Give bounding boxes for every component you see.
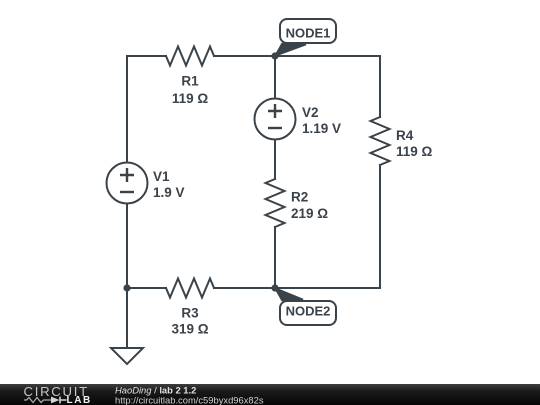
wire left vertical lower (127,204)-(127,288)	[126, 204, 128, 288]
resistor R4 zigzag	[371, 117, 390, 165]
voltage source V1 circle	[107, 163, 148, 204]
wire right vertical upper (380,56)-(380,117)	[379, 56, 381, 117]
NODE1 flag tail	[275, 44, 306, 57]
svg-text:V2: V2	[302, 105, 319, 120]
svg-text:V1: V1	[153, 169, 170, 184]
resistor R2 zigzag	[266, 179, 285, 227]
junction dot node2 bottom	[271, 284, 278, 291]
svg-text:119 Ω: 119 Ω	[172, 91, 209, 106]
wire right vertical lower (380,165)-(380,288)	[379, 165, 381, 288]
wire top-right (214,56)-(380,56)	[214, 55, 380, 57]
junction dot bottom-left	[123, 284, 130, 291]
svg-text:LAB: LAB	[67, 395, 92, 405]
NODE2 flag box	[280, 301, 336, 325]
voltage source V2 circle	[255, 99, 296, 140]
ground symbol stem and triangle	[126, 288, 128, 348]
wire middle vertical upper (275,56)-(275,98)	[274, 56, 276, 98]
svg-text:119 Ω: 119 Ω	[396, 144, 433, 159]
resistor R3 zigzag	[166, 279, 214, 298]
svg-text:R1: R1	[181, 73, 199, 88]
resistor R1 zigzag	[166, 47, 214, 66]
V2 minus sign	[268, 127, 282, 129]
svg-text:219 Ω: 219 Ω	[291, 206, 328, 221]
footer logo resistor zigzag glyph	[24, 398, 51, 403]
svg-text:R4: R4	[396, 128, 414, 143]
footer logo diode glyph	[51, 397, 60, 404]
wire middle vertical mid (275,140)-(275,179)	[274, 140, 276, 179]
V1 plus sign	[120, 168, 134, 182]
svg-text:NODE1: NODE1	[286, 26, 331, 41]
wire bottom-left (127,288)-(166,288)	[127, 287, 166, 289]
wire left vertical upper (127,56)-(127,162)	[126, 56, 128, 162]
svg-text:NODE2: NODE2	[286, 304, 331, 319]
wire middle vertical lower (275,227)-(275,288)	[274, 227, 276, 288]
wire bottom-right (214,288)-(380,288)	[214, 287, 380, 289]
V2 plus sign	[268, 104, 282, 118]
svg-text:1.19 V: 1.19 V	[302, 121, 341, 136]
V1 minus sign	[120, 191, 134, 193]
svg-text:1.9 V: 1.9 V	[153, 185, 185, 200]
wire top-left (127,56)-(166,56)	[127, 55, 166, 57]
svg-text:R3: R3	[181, 305, 199, 320]
NODE2 flag tail	[275, 288, 303, 301]
NODE1 flag box	[280, 19, 336, 43]
svg-text:R2: R2	[291, 189, 308, 204]
junction dot node1 top	[271, 52, 278, 59]
footer black bar	[0, 384, 540, 405]
svg-text:http://circuitlab.com/c59byxd9: http://circuitlab.com/c59byxd96x82s	[115, 395, 264, 405]
svg-text:319 Ω: 319 Ω	[171, 321, 208, 336]
